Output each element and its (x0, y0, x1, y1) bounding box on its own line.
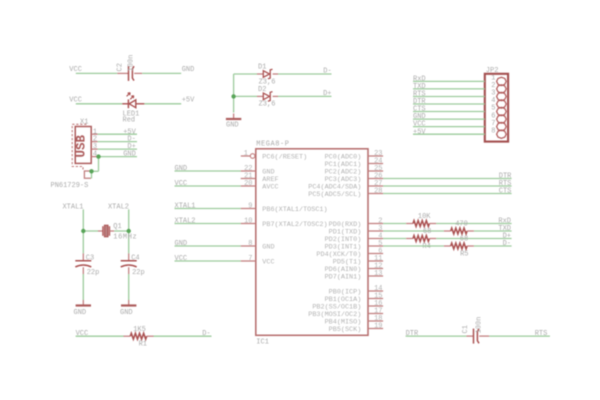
svg-text:GND: GND (182, 66, 195, 74)
wire VCC to IC1 (175, 185, 241, 187)
svg-text:PB7(XTAL2/TOSC2): PB7(XTAL2/TOSC2) (262, 221, 327, 229)
svg-text:10: 10 (244, 217, 252, 225)
wire XTAL1 to IC1 (175, 208, 241, 210)
wire GND to shield (98, 157, 100, 172)
pin 13 of IC1 (PD7(AIN1)) (368, 275, 383, 277)
wire IC1 to DTR (383, 178, 512, 180)
pin 16 of IC1 (PB2(SS/OC1B)) (368, 305, 383, 307)
svg-text:19: 19 (374, 322, 382, 330)
svg-text:C4: C4 (131, 254, 139, 262)
ground (zeners) (233, 114, 235, 120)
wire C2 to GND (142, 72, 181, 74)
resistor R1 1K5 (124, 335, 131, 337)
ground (C3) (82, 300, 84, 306)
wire XTAL2 to IC1 (175, 223, 241, 225)
svg-text:D-: D- (202, 330, 210, 338)
pin 10 of IC1 (PB7(XTAL2/TOSC2)) (241, 223, 256, 225)
pin 1 of IC1 (PC6(/RESET)) (241, 155, 251, 157)
capacitor C4 22p (128, 253, 130, 260)
svg-text:D1: D1 (258, 64, 266, 72)
pin 12 of IC1 (PD6(AIN0)) (368, 268, 383, 270)
svg-text:1K5: 1K5 (133, 326, 146, 334)
wire IC1 to R (RxD row) (383, 223, 406, 225)
svg-text:Red: Red (123, 117, 136, 125)
svg-text:GND: GND (123, 151, 136, 159)
svg-text:C1: C1 (462, 325, 470, 333)
pin 28 of IC1 (PC5(ADC5/SCL)) (368, 193, 383, 195)
svg-text:C2: C2 (116, 63, 124, 71)
svg-text:68: 68 (423, 228, 431, 236)
svg-text:10K: 10K (418, 213, 431, 221)
crystal Q1 16MHz (98, 230, 103, 232)
pin 1 of X1 (91, 133, 97, 135)
svg-text:D+: D+ (323, 90, 331, 98)
svg-text:D-: D- (503, 240, 511, 248)
svg-text:C3: C3 (86, 254, 94, 262)
pin 18 of IC1 (PB4(MISO)) (368, 320, 383, 322)
svg-text:100n: 100n (475, 317, 483, 334)
wire LED1 to +5V (144, 103, 181, 105)
pin 2 of IC1 (PD0(RXD)) (368, 223, 383, 225)
wire IC1 to R (D- row) (383, 245, 444, 247)
svg-text:D2: D2 (258, 86, 266, 94)
wire +5V to JP2 pin 8 (413, 133, 485, 135)
pin 5 of IC1 (PD3(INT1)) (368, 245, 383, 247)
wire GND to JP2 pin 6 (413, 118, 485, 120)
svg-text:GND: GND (175, 165, 188, 173)
pin 27 of IC1 (PC4(ADC4/SDA)) (368, 185, 383, 187)
svg-text:1: 1 (244, 150, 248, 158)
pin 2 of X1 (91, 141, 97, 143)
capacitor C2 (117, 72, 128, 74)
svg-text:7: 7 (248, 255, 252, 263)
wire R to TXD (474, 230, 512, 232)
svg-text:AVCC: AVCC (262, 183, 278, 191)
wire GND to IC1 (175, 170, 241, 172)
svg-text:9: 9 (248, 202, 252, 210)
wire C1 to RTS (489, 335, 550, 337)
svg-text:CTS: CTS (499, 188, 512, 196)
pin 4 of IC1 (PD2(INT0)) (368, 238, 383, 240)
svg-text:20: 20 (244, 180, 252, 188)
wire R to D- (474, 245, 512, 247)
junction at shield (89, 169, 93, 173)
wire X1 pin 3 to D+ (98, 148, 137, 150)
wire VCC to R1 (76, 335, 124, 337)
svg-text:Q1: Q1 (113, 223, 121, 231)
pin 7 of IC1 (VCC) (241, 260, 256, 262)
svg-text:13: 13 (374, 270, 382, 278)
svg-text:4: 4 (93, 151, 97, 159)
junction XTAL2/Q1 (127, 229, 131, 233)
svg-text:8: 8 (248, 240, 252, 248)
wire VCC to JP2 pin 7 (413, 126, 485, 128)
svg-text:USB: USB (75, 134, 89, 157)
svg-text:D-: D- (323, 68, 331, 76)
capacitor C3 22p (82, 253, 84, 260)
svg-text:PN61729-S: PN61729-S (51, 182, 89, 190)
wire X1 pin 1 to +5V (98, 133, 137, 135)
pin 6 of IC1 (PD4(XCK/T0)) (368, 253, 383, 255)
svg-text:8: 8 (491, 127, 495, 135)
svg-text:XTAL2: XTAL2 (108, 204, 129, 212)
wire X1 pin 2 to D- (98, 141, 137, 143)
wire CTS to JP2 pin 5 (413, 111, 485, 113)
svg-text:22p: 22p (132, 269, 145, 277)
LED LED1 Red (122, 103, 128, 105)
resistor R4 68 (D+ row) (406, 238, 413, 240)
wire VCC to IC1 (175, 260, 241, 262)
wire crystal left (83, 230, 98, 232)
pin 25 of IC1 (PC2(ADC2)) (368, 170, 383, 172)
wire zener common to ground (233, 74, 235, 113)
svg-text:VCC: VCC (175, 180, 188, 188)
wire GND to IC1 (175, 245, 241, 247)
svg-text:PC5(ADC5/SCL): PC5(ADC5/SCL) (308, 191, 361, 199)
resistor 10K (RxD row) (406, 223, 413, 225)
svg-text:16MHz: 16MHz (113, 234, 137, 242)
svg-text:GND: GND (226, 121, 239, 129)
pin 3 of IC1 (PD1(TXD)) (368, 230, 383, 232)
wire IC1 to CTS (383, 193, 512, 195)
pin 21 of IC1 (AREF) (241, 178, 256, 180)
svg-text:PC6(/RESET): PC6(/RESET) (262, 153, 307, 161)
svg-text:XTAL1: XTAL1 (62, 204, 83, 212)
wire XTAL1 vertical (82, 209, 84, 253)
svg-text:Z3,6: Z3,6 (259, 100, 276, 108)
svg-text:R5: R5 (460, 250, 468, 258)
svg-text:IC1: IC1 (256, 339, 269, 347)
svg-text:GND: GND (175, 240, 188, 248)
wire crystal right (114, 230, 129, 232)
pin 15 of IC1 (PB1(OC1A)) (368, 298, 383, 300)
pin 4 of X1 (91, 156, 97, 158)
resistor R5 68 (D- row) (444, 245, 451, 247)
wire RTS to JP2 pin 3 (413, 96, 485, 98)
pin 22 of IC1 (GND) (241, 170, 256, 172)
wire IC1 to RTS (383, 185, 512, 187)
svg-text:100n: 100n (127, 55, 135, 72)
wire D1 to D- (278, 73, 332, 75)
pin 26 of IC1 (PC3(ADC3)) (368, 178, 383, 180)
svg-text:+5V: +5V (182, 97, 195, 105)
svg-text:68: 68 (460, 235, 468, 243)
svg-text:XTAL2: XTAL2 (175, 218, 196, 226)
wire D2 to D+ (278, 95, 332, 97)
junction D2 (231, 94, 235, 98)
pin 19 of IC1 (PB5(SCK)) (368, 328, 383, 330)
wire IC1 to R (D+ row) (383, 238, 406, 240)
pin 20 of IC1 (AVCC) (241, 185, 256, 187)
svg-text:470: 470 (455, 220, 468, 228)
wire R to RxD (436, 223, 511, 225)
capacitor C1 100n (466, 335, 473, 337)
wire RxD to JP2 pin 1 (413, 80, 485, 82)
svg-text:R4: R4 (422, 243, 430, 251)
pin 3 of X1 (91, 148, 97, 150)
svg-text:RTS: RTS (535, 330, 548, 338)
svg-text:R1: R1 (139, 340, 147, 348)
svg-text:28: 28 (374, 187, 382, 195)
pin 17 of IC1 (PB3(MOSI/OC2)) (368, 313, 383, 315)
junction on X1 GND pin (96, 154, 100, 158)
wire IC1 to R (TXD row) (383, 230, 444, 232)
svg-text:PB6(XTAL1/TOSC1): PB6(XTAL1/TOSC1) (262, 206, 327, 214)
wire R to D+ (436, 238, 511, 240)
wire VCC to C2 (76, 72, 118, 74)
svg-text:X1: X1 (80, 118, 88, 126)
svg-text:PB5(SCK): PB5(SCK) (329, 326, 362, 334)
wire DTR to C1 (406, 335, 467, 337)
wire X1 pin 4 to GND (98, 156, 137, 158)
svg-text:GND: GND (120, 309, 133, 317)
wire VCC to LED1 (76, 103, 123, 105)
svg-text:MEGA8-P: MEGA8-P (256, 140, 289, 148)
svg-text:GND: GND (74, 309, 87, 317)
pin 8 of IC1 (GND) (241, 245, 256, 247)
pin 14 of IC1 (PB0(ICP)) (368, 290, 383, 292)
junction XTAL1/Q1 (81, 229, 85, 233)
pin 11 of IC1 (PD5(T1)) (368, 260, 383, 262)
pin 9 of IC1 (PB6(XTAL1/TOSC1)) (241, 208, 256, 210)
wire DTR to JP2 pin 4 (413, 103, 485, 105)
svg-text:22p: 22p (87, 269, 100, 277)
X1 shield pins (84, 171, 91, 178)
svg-text:VCC: VCC (175, 255, 188, 263)
wire XTAL2 vertical (128, 209, 130, 253)
svg-text:+5V: +5V (413, 128, 426, 136)
ground (C4) (128, 300, 130, 306)
wire R1 to D- (154, 335, 212, 337)
resistor 470 (TXD row) (444, 230, 451, 232)
svg-text:XTAL1: XTAL1 (175, 203, 196, 211)
wire C3 to ground (82, 274, 84, 300)
svg-text:VCC: VCC (262, 258, 274, 266)
wire TXD to JP2 pin 2 (413, 88, 485, 90)
pin 24 of IC1 (PC1(ADC1)) (368, 163, 383, 165)
svg-text:PD7(AIN1): PD7(AIN1) (325, 273, 362, 281)
wire C4 to ground (128, 274, 130, 300)
svg-text:GND: GND (262, 243, 274, 251)
pin 23 of IC1 (PC0(ADC0)) (368, 155, 383, 157)
